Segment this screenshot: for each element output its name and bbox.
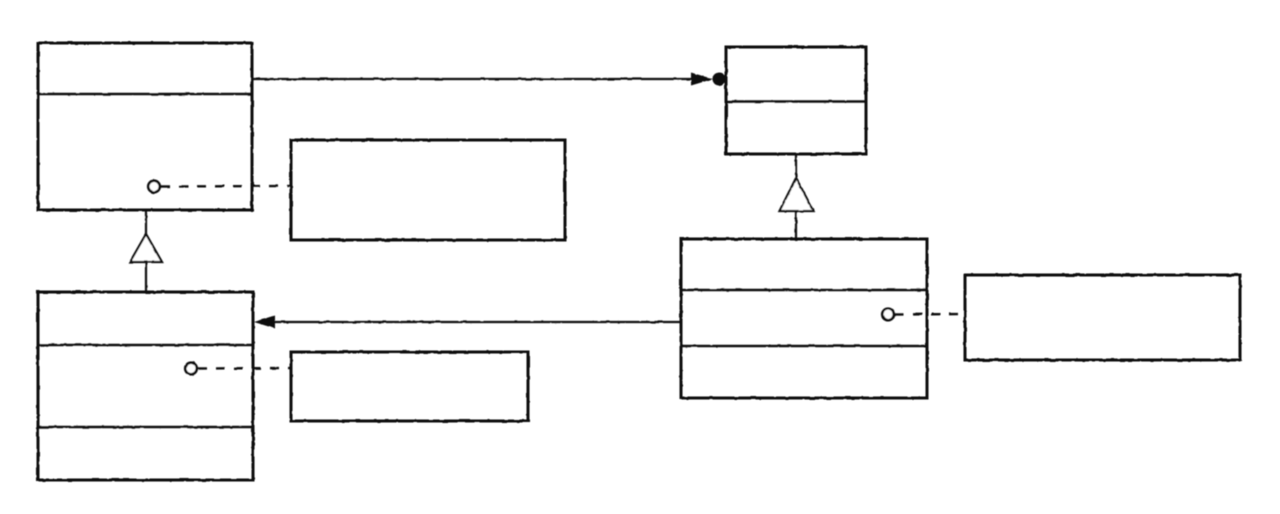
note box N1 (upper middle): [291, 140, 565, 240]
class box B2 (top-right): [726, 47, 866, 154]
class box B4 (bottom-left): [38, 292, 253, 480]
hollow triangle (generalization arrow to B2): [780, 178, 814, 211]
arrowhead (filled) on association B1-B2: [691, 73, 713, 86]
wire: dashed link B3 to N3: [895, 313, 965, 316]
anchor circle in B1: [148, 181, 160, 193]
wire: generalization B4 to B1 (upper segment): [145, 210, 147, 235]
wire: association B1 to B2: [253, 78, 696, 80]
class box B3 (middle-right): [681, 239, 927, 398]
ball node (filled circle) at B2 edge: [713, 73, 726, 86]
anchor circle in B3: [882, 309, 894, 321]
wire: generalization B3 to B2 (upper segment): [795, 154, 797, 179]
wire: association B3 to B4: [272, 321, 681, 323]
note box N3 (right): [965, 275, 1240, 360]
note box N2 (lower-left): [291, 352, 528, 421]
arrowhead (filled) on association B3-B4: [254, 316, 275, 329]
anchor circle in B4: [185, 363, 197, 375]
wire: dashed link B1 to N1: [161, 185, 291, 188]
hollow triangle (generalization arrow to B1): [130, 234, 162, 262]
wire: generalization B3 to B2 (lower segment): [795, 211, 797, 239]
wire: generalization B4 to B1 (lower segment): [145, 262, 147, 292]
wire: dashed link B4 to N2: [198, 367, 291, 370]
class box B1 (top-left): [38, 43, 252, 210]
